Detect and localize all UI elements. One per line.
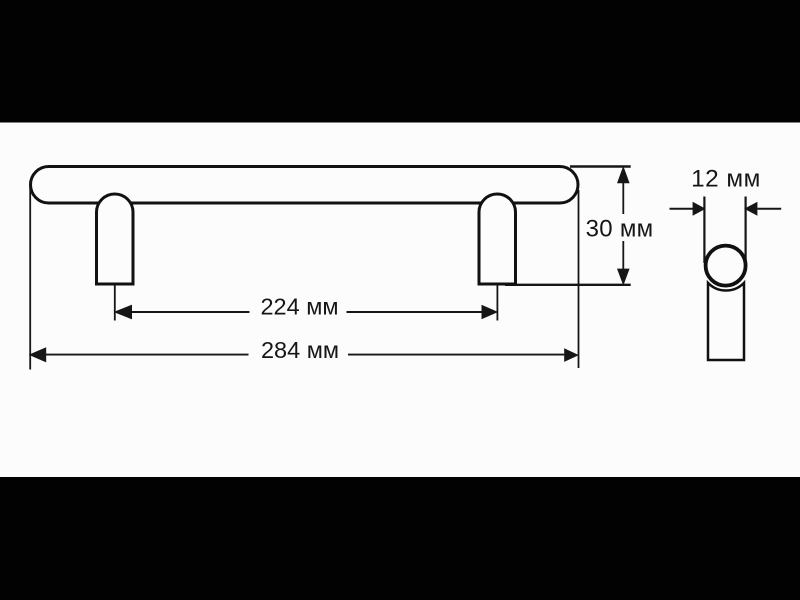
svg-text:284 мм: 284 мм [261,337,339,363]
svg-text:12 мм: 12 мм [691,165,761,192]
svg-text:30 мм: 30 мм [586,215,654,242]
svg-text:224 мм: 224 мм [260,294,338,320]
